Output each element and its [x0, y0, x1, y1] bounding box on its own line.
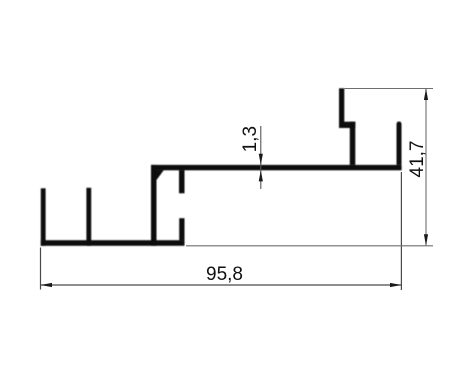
arrow left of 95,8 — [41, 283, 53, 287]
svg-text:95,8: 95,8 — [206, 264, 243, 285]
svg-text:1,3: 1,3 — [240, 126, 261, 152]
top-right upper wall — [339, 88, 344, 128]
arrow top of 41,7 — [424, 89, 428, 101]
arrow below web pointing up — [259, 170, 263, 181]
bottom flange bar — [41, 240, 185, 246]
extension line left — [40, 248, 42, 290]
chamfer fillet at wall/bar junction — [156, 170, 163, 180]
extension line bottom — [186, 245, 433, 247]
extension line top — [344, 88, 433, 90]
dimension 95,8 — [41, 172, 402, 290]
extension line right (vertical) — [400, 172, 402, 290]
arrow above web pointing down — [259, 154, 263, 165]
arrow bottom of 41,7 — [424, 234, 428, 246]
dimension 1,3 — [260, 126, 262, 189]
arrow right of 95,8 — [390, 283, 401, 287]
dimension 41,7 — [186, 89, 433, 246]
second wall — [86, 188, 91, 246]
left outer wall — [41, 188, 46, 246]
svg-text:41,7: 41,7 — [407, 141, 428, 178]
dimension line 95,8 — [41, 284, 401, 286]
right lip — [397, 122, 402, 165]
step jog — [339, 122, 355, 128]
middle horizontal web — [151, 165, 402, 170]
dimension line 1,3 — [260, 126, 262, 189]
rising stub on bottom bar — [179, 218, 184, 240]
tall center wall — [151, 165, 157, 246]
dimension line 41,7 — [425, 89, 427, 245]
profile cross-section body — [41, 88, 402, 246]
top-right lower wall — [350, 122, 356, 165]
hanging stub under web — [179, 170, 185, 193]
